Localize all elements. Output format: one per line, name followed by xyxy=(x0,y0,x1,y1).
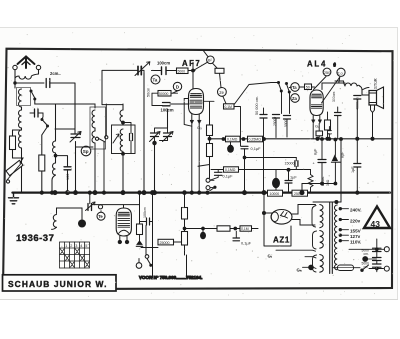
svg-text:cm.: cm. xyxy=(364,252,369,256)
capacitor block C7 (electrolytic) xyxy=(273,115,280,119)
ground xyxy=(9,193,19,204)
svg-text:50cm: 50cm xyxy=(147,88,151,97)
capacitor block C6 xyxy=(260,115,267,119)
svg-text:AF7: AF7 xyxy=(182,59,201,68)
padding trimmer C3 at top xyxy=(135,62,150,80)
voltage taps xyxy=(339,208,348,242)
trimmer cap xyxy=(86,202,96,211)
svg-text:0,1µF: 0,1µF xyxy=(251,146,262,151)
tube AK2 xyxy=(116,208,131,244)
svg-text:2cm..: 2cm.. xyxy=(50,71,61,76)
coil L2 (band coil in frame) xyxy=(17,88,31,108)
switch S1 xyxy=(31,91,35,98)
capacitor xyxy=(147,218,150,225)
wire xyxy=(104,104,106,192)
tuning gang cap C2 (variable, arrow) xyxy=(163,132,174,142)
capacitor in box xyxy=(130,134,133,141)
scanned page area xyxy=(0,27,398,299)
node xyxy=(93,191,97,195)
wire y228.5 xyxy=(185,228,218,230)
coil L8 in box xyxy=(120,129,123,151)
switch S2 xyxy=(42,120,47,126)
resistor R15 25000 (boxed) xyxy=(158,239,174,245)
resistor R4 50000 (boxed) xyxy=(158,91,171,97)
mains switch xyxy=(361,269,363,271)
svg-text:4: 4 xyxy=(80,244,82,248)
resistor R1 1500 (boxed, vertical) xyxy=(10,130,16,158)
resistor R8 0.1M (boxed) xyxy=(224,104,235,109)
wire y169 xyxy=(211,169,311,171)
svg-text:0,1M: 0,1M xyxy=(225,105,233,109)
svg-text:AZ1: AZ1 xyxy=(273,236,290,245)
smoothing resistor R20 (boxed on bus) xyxy=(268,190,283,196)
svg-text:0,1µF: 0,1µF xyxy=(241,240,252,245)
wire xyxy=(192,63,199,193)
resistor R7 (boxed) xyxy=(215,68,224,73)
circled Za xyxy=(291,94,300,103)
resistor R3 (boxed) xyxy=(177,68,189,74)
capacitor 0.1uF lower xyxy=(233,238,240,241)
switch S5 xyxy=(287,84,290,91)
antenna coil L1 xyxy=(15,74,39,79)
svg-text:Ta: Ta xyxy=(292,85,297,90)
capacitor 4000cm xyxy=(354,96,361,100)
coil L6 osc xyxy=(53,163,56,175)
capacitor 100cm xyxy=(64,167,71,170)
node xyxy=(14,82,16,84)
circled Te xyxy=(100,211,102,213)
svg-text:0,1MΩ: 0,1MΩ xyxy=(225,168,236,172)
wire xyxy=(210,180,214,187)
electrolytic blob xyxy=(230,142,232,146)
wire xyxy=(167,109,169,128)
zigzag to 25000 xyxy=(139,235,141,242)
circled 2e xyxy=(218,88,227,97)
circled 240 xyxy=(337,68,345,76)
resistor R19 0.1M (boxed) xyxy=(240,226,252,231)
wire xyxy=(155,128,168,143)
svg-text:1µF: 1µF xyxy=(351,166,355,173)
antenna xyxy=(18,57,35,69)
triangle 43 badge xyxy=(364,207,390,229)
tube AL4 xyxy=(310,90,323,123)
svg-text:Ta: Ta xyxy=(153,78,158,83)
wire xyxy=(335,81,362,95)
scan speckle noise xyxy=(4,32,396,297)
resistor R16 10000 (boxed, vertical) xyxy=(182,193,188,229)
svg-text:Te: Te xyxy=(98,214,103,219)
svg-text:240V.: 240V. xyxy=(350,208,362,213)
output transformer primary coil xyxy=(344,81,360,86)
svg-text:0,1µF: 0,1µF xyxy=(223,174,234,179)
wire node A xyxy=(35,99,56,141)
tube AZ1 (horizontal) xyxy=(271,210,292,225)
node xyxy=(190,191,193,194)
node xyxy=(153,191,157,195)
HT line y139 xyxy=(210,138,393,140)
svg-text:5: 5 xyxy=(85,244,87,248)
svg-text:155V: 155V xyxy=(350,229,362,234)
wire switch feed xyxy=(235,83,272,105)
mains wire top xyxy=(313,201,341,203)
resistor R12 0.25M (boxed, on HT line) xyxy=(248,136,263,142)
resistor R6 (boxed) xyxy=(316,131,323,136)
capacitor 0.1uF pickup xyxy=(215,172,223,175)
svg-text:250: 250 xyxy=(324,70,331,75)
wire xyxy=(154,143,156,192)
svg-text:AL4: AL4 xyxy=(307,60,327,69)
resistor R14 (boxed, vertical) xyxy=(137,222,143,235)
svg-text:220v: 220v xyxy=(350,218,361,223)
capacitor (padder) xyxy=(35,109,39,117)
capacitor C5 100cm xyxy=(163,103,171,106)
vertical resistor R9 30000 (boxed) xyxy=(207,102,213,144)
circled Sp xyxy=(81,146,91,156)
wire xyxy=(50,83,75,127)
electrolytic blob xyxy=(78,220,86,228)
svg-text:43: 43 xyxy=(371,219,381,229)
svg-text:39Ω: 39Ω xyxy=(326,179,330,186)
svg-text:100cm: 100cm xyxy=(157,61,170,66)
node xyxy=(121,191,125,195)
node xyxy=(122,152,125,155)
resistor R5 150 (boxed, vertical) xyxy=(325,120,331,130)
small blob marker xyxy=(333,62,336,67)
mains transformer xyxy=(312,206,317,273)
HT line left nodes xyxy=(208,137,211,140)
svg-text:100cm: 100cm xyxy=(161,108,174,113)
capacitor block C8 xyxy=(284,116,291,120)
SCHAUB JUNIOR W. box xyxy=(3,275,117,291)
node xyxy=(66,191,70,195)
smoothing resistor R21 (boxed on bus) xyxy=(292,190,308,196)
8uF electrolytic cap 2 xyxy=(333,156,338,161)
vertical resistor R10 (boxed) xyxy=(198,144,213,179)
wire to trimmer xyxy=(102,70,138,104)
AZ1 anode wires xyxy=(292,205,316,226)
svg-text:cm: cm xyxy=(364,265,369,269)
wire y183.5 xyxy=(302,183,335,185)
node xyxy=(192,69,195,72)
secondary winding right column xyxy=(334,205,337,270)
potentiometer (volume, diagonal) xyxy=(6,158,23,183)
svg-text:STüR: STüR xyxy=(373,78,378,89)
node xyxy=(142,191,146,195)
wire anode up xyxy=(322,83,345,90)
wire xyxy=(21,128,23,130)
fuse xyxy=(333,265,360,271)
svg-text:1: 1 xyxy=(65,244,67,248)
coil box frame xyxy=(112,125,136,154)
pickup terminal 2 xyxy=(206,186,210,190)
coil L3 xyxy=(19,110,22,128)
wire tube top xyxy=(92,205,140,209)
coil L9 xyxy=(53,215,56,228)
transformer core xyxy=(330,203,333,274)
wire xyxy=(15,70,39,83)
mains terminal 1 xyxy=(384,247,389,252)
speaker STuR xyxy=(369,87,384,109)
resistor R11 0.1M (boxed, on HT line) xyxy=(226,136,241,142)
svg-text:2e: 2e xyxy=(219,90,224,95)
svg-text:50 000 om.: 50 000 om. xyxy=(255,96,259,115)
svg-text:Gₙ: Gₙ xyxy=(297,268,302,273)
svg-text:50: 50 xyxy=(306,85,310,89)
pickup terminal 1 xyxy=(206,178,210,182)
coil L5 osc xyxy=(53,141,56,153)
wire xyxy=(195,51,217,70)
wire long vertical xyxy=(143,73,145,192)
wire xyxy=(42,113,43,120)
svg-text:2,o: 2,o xyxy=(337,71,343,76)
wire xyxy=(13,129,22,131)
svg-text:10000: 10000 xyxy=(270,192,280,196)
heater tap arrow xyxy=(305,257,316,258)
svg-text:5000: 5000 xyxy=(178,69,186,73)
IF coil T1 primary xyxy=(92,110,95,128)
valve table xyxy=(60,242,90,268)
wire diagonals from circles to tube xyxy=(314,77,340,104)
svg-text:15000: 15000 xyxy=(285,161,295,165)
IF shield box xyxy=(90,107,106,149)
switch S6 xyxy=(208,187,215,192)
heater dot xyxy=(308,265,314,271)
svg-text:SCHAUB JUNIOR W.: SCHAUB JUNIOR W. xyxy=(8,279,108,289)
electrolytic blob xyxy=(200,232,206,240)
wire verticals xyxy=(153,193,187,278)
coil L4 xyxy=(19,130,22,148)
wire xyxy=(220,73,222,87)
pot arrow inside box xyxy=(113,134,119,143)
tuning cap C-osc (trimmer with arrow) xyxy=(70,132,81,143)
svg-text:110V.: 110V. xyxy=(350,240,361,245)
svg-text:127v: 127v xyxy=(350,234,361,239)
wires 8uF xyxy=(322,140,335,184)
electrolytic blob big xyxy=(275,170,277,179)
wire xyxy=(55,153,57,163)
resistor R17 20000 (boxed, vertical) xyxy=(182,229,188,256)
mains line to terminal xyxy=(349,248,385,250)
circled Ta2 xyxy=(291,83,300,92)
svg-text:25000: 25000 xyxy=(160,241,170,245)
wire xyxy=(271,83,292,114)
svg-text:0,25MΩ: 0,25MΩ xyxy=(249,138,262,142)
phono terminal xyxy=(136,263,142,269)
node xyxy=(53,191,57,195)
svg-text:2: 2 xyxy=(70,244,72,248)
capacitor 2cm xyxy=(46,79,50,88)
svg-text:1936-37: 1936-37 xyxy=(16,233,54,244)
wire xyxy=(14,83,16,88)
antenna terminal left xyxy=(13,65,17,69)
coil L7 xyxy=(120,110,123,122)
main ground bus xyxy=(13,191,391,193)
circled 250 xyxy=(323,68,331,76)
wire xyxy=(89,193,91,204)
resistor R13 0.1M (boxed) xyxy=(224,167,239,172)
AZ1 cathode wire xyxy=(264,193,291,246)
border frame xyxy=(3,49,393,290)
switch S3 xyxy=(95,137,98,140)
ballast resistor zigzag xyxy=(308,175,313,193)
cathode cap xyxy=(335,113,342,116)
capacitor 1uF mid xyxy=(354,164,361,168)
wire xyxy=(52,208,83,229)
wire xyxy=(122,104,124,110)
svg-text:100: 100 xyxy=(66,174,70,180)
8uF electrolytic cap 1 xyxy=(318,160,326,163)
wire xyxy=(102,104,123,106)
resistor R18 (boxed) xyxy=(217,226,230,231)
wire xyxy=(21,107,23,110)
switch S4 xyxy=(279,83,282,90)
primary winding bumps (left, chevrons) xyxy=(320,205,323,273)
svg-text:0,1MΩ: 0,1MΩ xyxy=(227,138,238,142)
capacitor 15000 xyxy=(295,161,298,167)
circled Bz node xyxy=(207,56,215,64)
line filter caps xyxy=(373,248,382,267)
node xyxy=(122,121,125,124)
small cap above HT line xyxy=(328,131,332,134)
tube AF7 xyxy=(184,89,214,127)
capacitor 0.1uF xyxy=(241,146,248,149)
svg-text:8µF: 8µF xyxy=(314,148,318,155)
circled D xyxy=(173,82,181,90)
wire xyxy=(94,128,96,131)
IF coil T1 secondary xyxy=(92,131,95,143)
resistor R2 40000 (boxed, vertical) xyxy=(39,127,48,193)
node xyxy=(316,137,319,140)
switch S7 xyxy=(145,255,149,259)
wire xyxy=(55,104,95,192)
svg-text:Za: Za xyxy=(292,96,298,101)
wire speaker xyxy=(362,95,375,139)
HT wire to transformer xyxy=(340,139,342,202)
earth blob xyxy=(362,256,368,262)
wire line A xyxy=(245,157,297,159)
boxed 50 xyxy=(305,84,312,90)
wire xyxy=(122,123,124,193)
bead terminal xyxy=(98,205,102,209)
wire xyxy=(21,148,23,192)
wire xyxy=(234,107,241,147)
wire xyxy=(15,82,44,84)
mains terminal 2 xyxy=(384,266,389,271)
capacitor 1uF xyxy=(285,181,292,184)
wire xyxy=(223,96,226,103)
node xyxy=(153,141,156,144)
svg-text:3: 3 xyxy=(75,244,77,248)
svg-text:100cm: 100cm xyxy=(143,207,147,218)
svg-text:50000: 50000 xyxy=(159,92,169,96)
wire xyxy=(55,129,93,147)
capacitor C4 xyxy=(162,67,167,75)
tuning gang cap C1 (variable, arrow) xyxy=(150,132,161,142)
circled Ta xyxy=(151,75,160,84)
antenna terminal right xyxy=(36,65,40,69)
wire xyxy=(52,175,56,192)
svg-text:300om: 300om xyxy=(332,91,336,102)
primary winding left column xyxy=(312,206,316,228)
svg-text:VOOR N° 750.000........752104.: VOOR N° 750.000........752104. xyxy=(139,275,202,280)
svg-text:Sp: Sp xyxy=(83,149,89,154)
